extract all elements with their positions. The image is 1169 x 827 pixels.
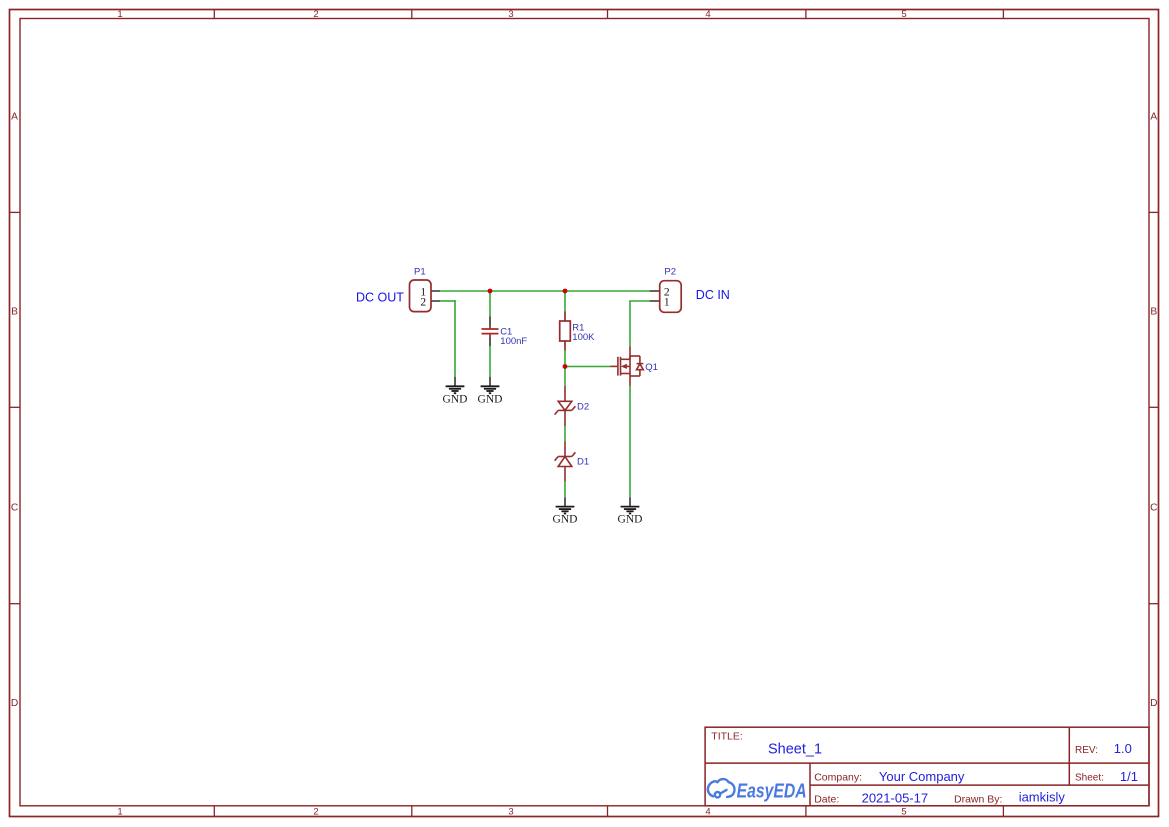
row ticks left [10,212,21,603]
ground GND (P1 pin2) [443,377,468,405]
svg-text:4: 4 [705,9,710,20]
wire: between D2 and D1 [564,426,566,442]
zener diode D2 [555,386,576,426]
ground GND (D1) [553,498,578,526]
svg-text:Sheet:: Sheet: [1075,773,1104,784]
svg-text:Q1: Q1 [645,362,658,373]
P1 pin 2 stub [431,300,440,302]
Q1 body diode cathode lead [639,356,641,364]
Q1 body diode triangle [637,364,644,370]
wire: P2 pin1 horizontal [629,300,649,302]
svg-text:3: 3 [508,807,513,818]
svg-text:1/1: 1/1 [1120,769,1138,784]
P2 pin 2 stub [650,290,660,292]
capacitor C1 [482,317,499,347]
svg-text:GND: GND [553,514,578,526]
column ticks bottom [214,806,1003,817]
junction node at R1 bottom / gate [563,364,568,369]
svg-text:5: 5 [901,807,906,818]
svg-text:P2: P2 [664,266,676,277]
wire: Q1 source to GND [629,386,631,498]
P2 body [660,281,682,313]
svg-text:P1: P1 [414,266,426,277]
Q1 body diode anode lead [639,370,641,376]
svg-text:GND: GND [443,393,468,405]
svg-text:Sheet_1: Sheet_1 [768,741,822,757]
wire: P1 pin1 to P2 pin2 main horizontal [440,290,650,292]
svg-text:D: D [11,698,18,709]
svg-text:GND: GND [478,393,503,405]
svg-text:3: 3 [508,9,513,20]
wire: D1 to GND [564,482,566,498]
Q1 bottom stub [621,373,631,375]
svg-text:D1: D1 [577,456,589,467]
svg-text:A: A [1150,112,1157,123]
svg-text:REV:: REV: [1075,745,1098,756]
Q1 channel bar [620,357,622,376]
transistor Q1 (P-MOSFET) [610,346,643,386]
zener diode D1 [555,442,576,482]
Q1 gate pin [610,365,617,367]
wire: C1 bottom to GND [489,346,491,377]
svg-text:GND: GND [618,514,643,526]
svg-text:1: 1 [664,297,670,309]
Q1 gate bar [617,357,619,376]
Q1 right vertical [629,356,631,376]
wire: P1 pin2 vertical to GND [454,300,456,377]
Q1 drain lead [629,346,631,359]
svg-text:Drawn By:: Drawn By: [954,793,1002,805]
svg-text:B: B [11,307,18,318]
resistor R1 [560,312,571,351]
ground GND (C1) [478,377,503,405]
svg-text:4: 4 [705,807,710,818]
svg-text:TITLE:: TITLE: [711,731,743,743]
row letters right [1150,112,1157,710]
Q1 source lead [629,376,631,386]
svg-text:2: 2 [420,297,426,309]
wire: R1 top [564,291,566,312]
Q1 gate arrow [621,364,627,369]
EasyEDA logo cloud [708,779,735,797]
connector P1 [410,280,441,312]
svg-text:D: D [1150,698,1157,709]
svg-text:C: C [11,503,18,514]
Q1 body diode cathode bar [637,363,644,365]
wire: P1 pin2 horizontal [440,300,456,302]
column numbers top [117,9,906,20]
Q1 body diode bottom link [630,375,640,377]
row letters left [11,112,18,710]
wire: C1 top [489,291,491,317]
connector P2 [650,281,682,313]
title block lines [705,727,1149,806]
svg-text:Company:: Company: [814,772,862,784]
column numbers bottom [117,807,906,818]
P2 pin 1 stub [650,300,660,302]
row ticks right [1149,212,1159,603]
svg-text:DC IN: DC IN [696,288,730,302]
wire: P2 pin1 vertical to Q1 drain [629,301,631,346]
P1 body [410,280,432,312]
svg-text:iamkisly: iamkisly [1019,790,1066,805]
svg-text:C: C [1150,503,1157,514]
svg-text:100K: 100K [572,332,595,343]
svg-text:Your Company: Your Company [879,769,965,784]
svg-text:Date:: Date: [814,793,839,805]
ground GND (Q1) [618,498,643,526]
svg-text:D2: D2 [577,401,589,412]
Q1 body diode top link [630,355,640,357]
junction node at R1 top [563,289,568,294]
Q1 drain stub [621,358,631,360]
svg-text:EasyEDA: EasyEDA [737,781,807,803]
svg-text:5: 5 [901,9,906,20]
Q1 source stub [627,365,630,367]
wire: R1 bottom to gate node [564,351,566,387]
svg-text:A: A [11,112,18,123]
svg-text:2: 2 [313,807,318,818]
svg-text:2: 2 [313,9,318,20]
column ticks top [214,10,1003,19]
svg-text:1: 1 [117,807,122,818]
svg-text:1.0: 1.0 [1114,741,1132,756]
svg-text:DC OUT: DC OUT [356,290,404,304]
wire: gate node to Q1 gate [565,366,610,368]
junction node at C1 top [488,289,493,294]
P1 pin 1 stub [431,290,440,292]
svg-text:2021-05-17: 2021-05-17 [862,791,929,806]
svg-text:1: 1 [117,9,122,20]
svg-text:100nF: 100nF [500,336,527,347]
svg-text:B: B [1150,307,1157,318]
